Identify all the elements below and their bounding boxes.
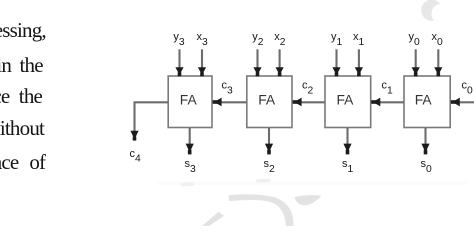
svg-text:x1: x1 [353,31,365,48]
carry c0 wire [459,101,474,103]
full adder U1 box [325,76,371,128]
svg-text:x3: x3 [197,31,209,48]
svg-text:s0: s0 [421,158,433,175]
svg-text:FA: FA [180,93,198,108]
svg-text:y0: y0 [409,31,421,48]
svg-text:s2: s2 [264,158,276,175]
svg-text:x2: x2 [274,31,286,48]
svg-text:FA: FA [258,93,276,108]
carry c3 wire [221,101,247,103]
carry out c4 wire [135,102,169,131]
svg-text:c2: c2 [302,80,314,97]
watermark big curve [229,194,294,226]
sum s0 wire [424,128,426,146]
wire y1 input [335,49,337,69]
wire x0 input [437,49,439,69]
wire y2 input [256,49,258,69]
svg-text:y2: y2 [252,31,264,48]
wire x2 input [279,49,281,69]
svg-text:c1: c1 [382,80,394,97]
wire x1 input [358,49,360,69]
svg-text:FA: FA [415,93,433,108]
svg-text:s1: s1 [342,158,354,175]
watermark small dash left [180,182,194,186]
svg-text:x0: x0 [432,31,444,48]
full adder U0 box [404,76,450,128]
sum s2 wire [268,128,270,146]
wire y3 input [178,49,180,69]
full adder U3 box [168,76,212,128]
svg-text:c3: c3 [222,80,234,97]
full adder U2 box [247,76,292,128]
watermark small dash right [256,179,271,183]
svg-text:FA: FA [337,93,355,108]
watermark faint band [158,181,468,185]
svg-text:c0: c0 [462,80,474,97]
wire x3 input [201,49,203,69]
svg-text:y3: y3 [173,31,185,48]
svg-text:c4: c4 [130,148,142,165]
carry c1 wire [380,101,404,103]
watermark wing [295,195,322,205]
left column body text (cropped at left edge) [0,18,46,43]
svg-text:y1: y1 [331,31,343,48]
sum s3 wire [189,128,191,146]
carry c2 wire [301,101,325,103]
watermark diagonal [202,212,224,226]
wire y0 input [415,49,417,69]
sum s1 wire [346,128,348,146]
svg-text:s3: s3 [185,158,197,175]
